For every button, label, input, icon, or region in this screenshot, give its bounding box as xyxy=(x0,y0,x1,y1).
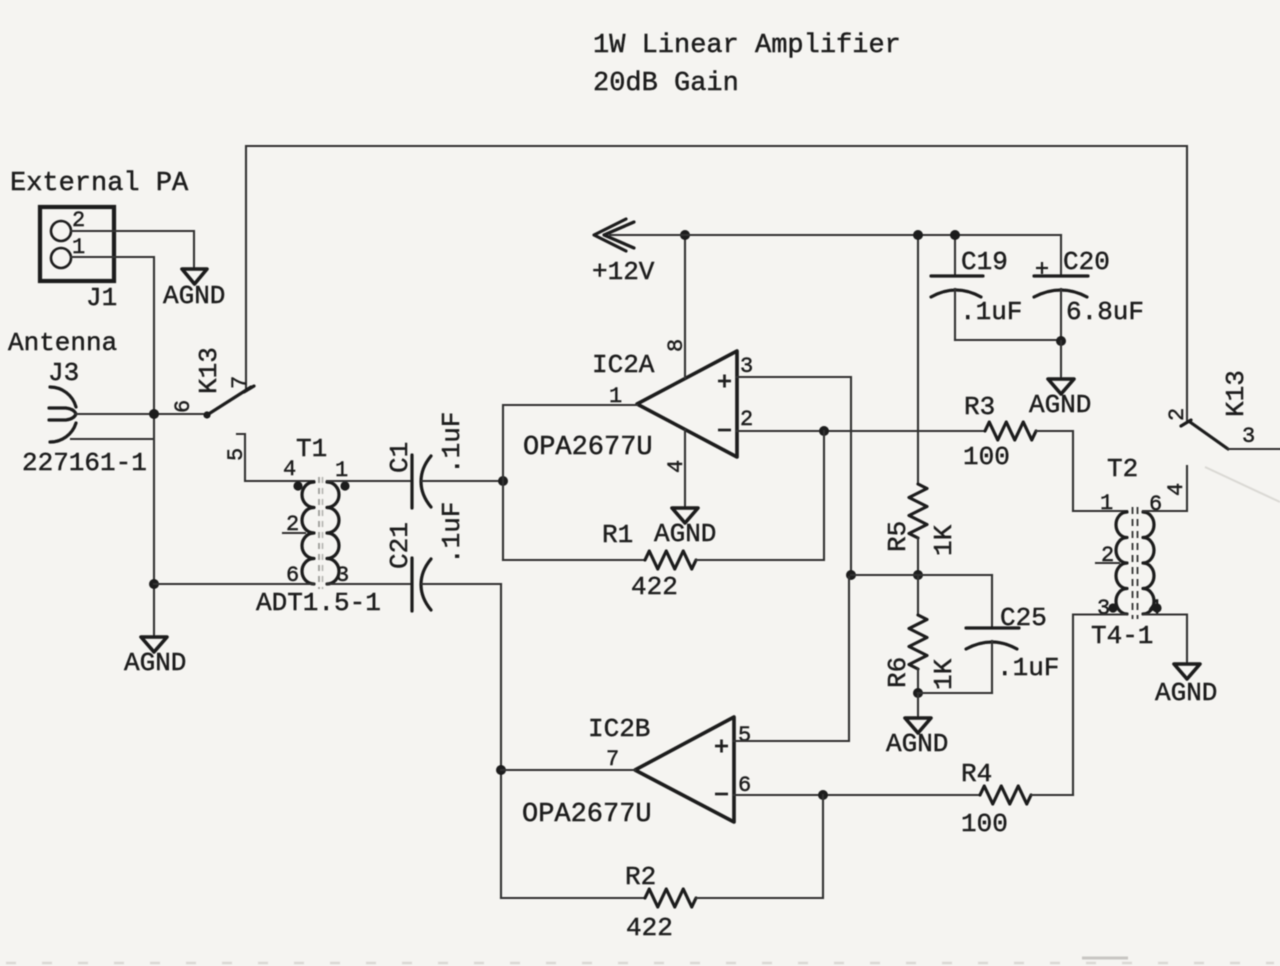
T2 phase dot pin3 xyxy=(1108,603,1117,612)
svg-text:6: 6 xyxy=(171,400,196,413)
svg-text:IC2A: IC2A xyxy=(592,350,655,380)
T2 pin2 stub xyxy=(1096,562,1119,564)
svg-text:OPA2677U: OPA2677U xyxy=(522,800,652,830)
connector J1 xyxy=(40,207,114,281)
svg-text:K13: K13 xyxy=(194,347,224,394)
power +12V arrow xyxy=(594,219,634,251)
wire T2 pin4 to ground xyxy=(1143,615,1187,665)
resistor R2 xyxy=(501,897,645,899)
svg-text:6: 6 xyxy=(1149,492,1162,517)
ground AGND (antenna net) xyxy=(141,637,167,652)
svg-text:IC2B: IC2B xyxy=(588,714,650,744)
relay K13 right arm xyxy=(1190,422,1228,449)
svg-text:100: 100 xyxy=(961,809,1008,839)
capacitor C1 xyxy=(412,455,431,508)
svg-text:422: 422 xyxy=(631,572,678,602)
svg-text:R4: R4 xyxy=(961,759,992,789)
svg-text:AGND: AGND xyxy=(1155,678,1217,708)
svg-text:422: 422 xyxy=(626,913,673,943)
svg-text:227161-1: 227161-1 xyxy=(22,448,147,478)
svg-text:J1: J1 xyxy=(86,283,117,313)
svg-text:AGND: AGND xyxy=(163,281,225,311)
wire IC2A pin4 to ground xyxy=(684,430,686,508)
T1 phase dot pin4 xyxy=(293,481,302,490)
svg-text:1W Linear Amplifier: 1W Linear Amplifier xyxy=(593,31,901,61)
svg-text:6.8uF: 6.8uF xyxy=(1066,297,1144,327)
op-amp IC2A xyxy=(637,351,737,457)
node IC2B pin6 / R2 feedback xyxy=(818,790,828,800)
svg-text:4: 4 xyxy=(1164,483,1189,496)
J1 pin 1 circle xyxy=(51,248,71,268)
wire J1 pin1 down to antenna node and AGND xyxy=(71,257,154,637)
relay K13 right contact tick xyxy=(1181,420,1191,426)
svg-text:AGND: AGND xyxy=(886,729,948,759)
svg-text:1: 1 xyxy=(335,458,348,483)
svg-text:R2: R2 xyxy=(625,862,656,892)
svg-text:3: 3 xyxy=(1097,596,1110,621)
ground AGND (J1 pin2) xyxy=(182,269,207,284)
node IC2A output / C1 xyxy=(498,476,508,486)
capacitor C20 xyxy=(1060,235,1062,275)
svg-text:R3: R3 xyxy=(964,392,995,422)
svg-text:OPA2677U: OPA2677U xyxy=(523,433,653,463)
wire IC2B pin5 to bias node xyxy=(734,577,849,741)
svg-text:J3: J3 xyxy=(48,358,79,388)
svg-text:1K: 1K xyxy=(929,524,959,556)
T2 right winding xyxy=(1143,512,1154,614)
svg-text:.1uF: .1uF xyxy=(437,412,467,474)
node IC2A pin2 / R1 feedback xyxy=(819,426,829,436)
svg-text:T1: T1 xyxy=(296,434,327,464)
svg-text:2: 2 xyxy=(1101,543,1114,568)
svg-text:.1uF: .1uF xyxy=(437,502,467,564)
J1 pin 2 circle xyxy=(51,221,71,241)
capacitor C19 xyxy=(954,235,956,275)
ground AGND (T2) xyxy=(1174,664,1200,679)
wire J3 shield to ground net xyxy=(71,438,153,440)
svg-text:R6: R6 xyxy=(883,657,913,688)
wire +12V rail xyxy=(610,234,1061,236)
wire IC2A pin1 output xyxy=(503,405,637,560)
T1 pin5 stub wire xyxy=(237,434,314,481)
transformer T1 left winding xyxy=(302,482,314,584)
wire K13 pin3 xyxy=(1228,448,1280,450)
svg-text:1: 1 xyxy=(1100,491,1113,516)
ground AGND (R6) xyxy=(905,718,931,733)
T2 core xyxy=(1132,507,1134,619)
wire T1 pin3 to C21 xyxy=(327,583,411,585)
wire J3 center to K13 pin6 xyxy=(76,413,207,415)
wire IC2B output vertical xyxy=(500,584,502,898)
svg-text:100: 100 xyxy=(963,442,1010,472)
T1 core xyxy=(318,477,320,589)
scan artifact diagonal scratch xyxy=(1205,467,1280,502)
svg-text:C21: C21 xyxy=(385,522,415,569)
wire IC2B pin7 output xyxy=(501,769,635,771)
wire bias node horizontal xyxy=(851,574,992,576)
ground AGND (C19 C20) xyxy=(1048,379,1074,394)
svg-text:3: 3 xyxy=(740,354,753,379)
relay K13 left contact 7 tick xyxy=(244,386,254,392)
relay K13 left contact 6 xyxy=(203,411,210,418)
svg-text:.1uF: .1uF xyxy=(997,653,1059,683)
svg-text:2: 2 xyxy=(740,407,753,432)
wire T1 pin6 to ground junction xyxy=(154,583,314,585)
connector J3 coax symbol xyxy=(49,387,76,442)
svg-text:C25: C25 xyxy=(1000,603,1047,633)
svg-text:20dB Gain: 20dB Gain xyxy=(593,69,739,99)
svg-text:AGND: AGND xyxy=(654,519,716,549)
svg-text:R1: R1 xyxy=(602,520,633,550)
node C20 ground junction xyxy=(1056,336,1066,346)
svg-text:3: 3 xyxy=(1242,424,1255,449)
node R5 R6 junction xyxy=(913,570,923,580)
wire C19/C20 bottoms xyxy=(955,339,1061,341)
svg-text:2: 2 xyxy=(1165,408,1190,421)
resistor R3 xyxy=(985,422,1036,440)
node IC2B output / pin7 xyxy=(496,765,506,775)
node T1 pin6 / ground junction xyxy=(149,579,159,589)
node C19 rail junction xyxy=(950,230,960,240)
svg-text:2: 2 xyxy=(72,208,85,233)
wire R6 to ground xyxy=(917,693,919,718)
svg-text:+12V: +12V xyxy=(592,257,655,287)
capacitor C21 xyxy=(412,558,431,611)
resistor R6 xyxy=(917,575,919,615)
T2 left winding xyxy=(1116,512,1127,614)
wire C25 bottom to R6 bottom xyxy=(918,692,992,694)
svg-text:C20: C20 xyxy=(1063,247,1110,277)
svg-text:2: 2 xyxy=(286,512,299,537)
wire T2 pin1 xyxy=(1073,510,1127,512)
svg-text:ADT1.5-1: ADT1.5-1 xyxy=(256,588,381,618)
capacitor C25 xyxy=(991,575,993,627)
svg-text:K13: K13 xyxy=(1221,370,1251,417)
relay K13 left arm xyxy=(207,387,251,415)
resistor R4 xyxy=(980,786,1031,804)
wire C20 to ground xyxy=(1060,341,1062,379)
scan artifact bottom edge xyxy=(6,962,1274,964)
svg-text:AGND: AGND xyxy=(1029,390,1091,420)
wire T1 pin1 to C1 xyxy=(327,480,411,482)
resistor R1 xyxy=(503,559,645,561)
svg-text:T4-1: T4-1 xyxy=(1091,621,1153,651)
svg-text:1K: 1K xyxy=(929,658,959,690)
svg-text:4: 4 xyxy=(283,457,296,482)
svg-text:7: 7 xyxy=(606,747,619,772)
svg-text:7: 7 xyxy=(228,376,253,389)
T1 pin2 stub xyxy=(283,532,305,534)
svg-text:.1uF: .1uF xyxy=(960,297,1022,327)
node antenna junction xyxy=(149,409,159,419)
svg-text:C1: C1 xyxy=(385,442,415,473)
node bias junction left xyxy=(846,570,856,580)
svg-text:5: 5 xyxy=(224,448,249,461)
resistor R5 xyxy=(917,235,919,484)
svg-text:C19: C19 xyxy=(961,247,1008,277)
wire top rail from K13 pin7 to K13 pin2 xyxy=(246,146,1187,420)
wire IC2A pin8 to +12V rail xyxy=(684,235,686,378)
ground AGND (IC2A pin4) xyxy=(672,508,698,523)
wire IC2A pin3 to bias node xyxy=(737,377,851,575)
T1 phase dot pin1 xyxy=(340,481,349,490)
svg-text:5: 5 xyxy=(738,723,751,748)
svg-text:AGND: AGND xyxy=(124,648,186,678)
op-amp IC2B xyxy=(635,717,734,822)
node R6 C25 ground junction xyxy=(913,688,923,698)
transformer T1 right winding xyxy=(327,482,339,584)
svg-text:T2: T2 xyxy=(1107,454,1138,484)
wire C1 to IC2A output node xyxy=(422,480,503,482)
node pin8 rail junction xyxy=(680,230,690,240)
svg-text:Antenna: Antenna xyxy=(8,328,117,358)
wire T2 pin6 up to K13 xyxy=(1143,466,1187,511)
wire IC2B pin6 to R4 xyxy=(734,794,980,796)
wire C21 to IC2B output node xyxy=(422,583,501,585)
svg-text:External PA: External PA xyxy=(10,169,189,199)
wire IC2A pin2 to R3 xyxy=(737,430,985,432)
wire T2 pin3 down to R4 xyxy=(1073,615,1127,796)
wire J1 pin2 to AGND xyxy=(71,231,194,268)
T2 phase dot pin4 xyxy=(1152,603,1161,612)
svg-text:R5: R5 xyxy=(883,521,913,552)
